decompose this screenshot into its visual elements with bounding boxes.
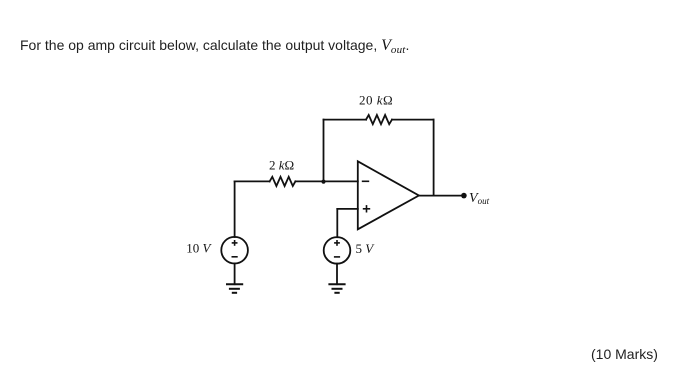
wire: input lead from 10V source to 2k resistor (235, 180, 270, 182)
10V source minus sign (232, 256, 238, 258)
heading text (20, 37, 409, 55)
resistor 2 kOhm zigzag (270, 177, 296, 186)
ground symbol under 10V (226, 284, 243, 293)
svg-text:2 kΩ: 2 kΩ (269, 157, 294, 172)
voltage source 5 V circle (324, 237, 351, 264)
5V source minus sign (334, 256, 340, 258)
resistor 20 kOhm feedback zigzag (366, 115, 392, 124)
node: inverting input junction dot (321, 180, 325, 184)
op-amp inverting pin minus sign (362, 180, 369, 182)
wire: 2k resistor to inverting node (295, 180, 323, 182)
ground symbol under 5V (328, 284, 345, 293)
svg-text:20 kΩ: 20 kΩ (359, 93, 393, 108)
voltage source 10 V circle (221, 237, 248, 264)
wire: feedback top-left segment (324, 119, 367, 121)
node: output terminal dot (461, 193, 467, 199)
marks text (591, 346, 658, 362)
svg-text:10 V: 10 V (186, 241, 212, 256)
svg-text:Vout: Vout (469, 191, 490, 206)
wire: feedback top-right segment (392, 119, 434, 121)
10V source plus sign (232, 242, 238, 244)
wire: feedback left vertical (323, 120, 325, 182)
5V source plus sign (334, 242, 340, 244)
wire: op-amp output (419, 195, 464, 197)
wire: inverting input stub (324, 180, 358, 182)
wire: 5V source bottom to ground (336, 264, 338, 285)
op-amp non-inverting pin plus sign (363, 208, 370, 210)
wire: non-inverting input horizontal (337, 208, 358, 210)
op-amp triangle (358, 161, 419, 229)
wire: 10V source top vertical (234, 181, 236, 237)
wire: feedback right vertical (433, 120, 435, 196)
wire: non-inverting input vertical to 5V source (336, 209, 338, 237)
svg-text:5 V: 5 V (356, 241, 376, 256)
wire: 10V source bottom to ground (234, 263, 236, 284)
